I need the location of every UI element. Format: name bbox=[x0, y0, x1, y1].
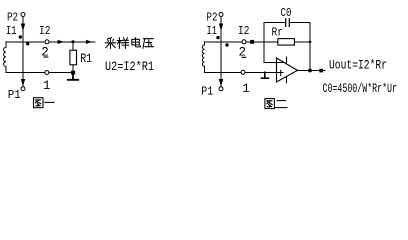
svg-text:I2: I2 bbox=[39, 24, 50, 38]
resistor R1 (fig1) bbox=[70, 50, 77, 65]
ground (fig2) bbox=[262, 72, 269, 78]
capacitor C0 left wire bbox=[264, 22, 285, 24]
svg-text:P1: P1 bbox=[8, 88, 21, 102]
svg-text:Uout=I2*Rr: Uout=I2*Rr bbox=[329, 57, 387, 72]
current arrow to P1 (fig2) bbox=[219, 79, 223, 87]
op-amp U1 bbox=[277, 58, 298, 82]
svg-text:R1: R1 bbox=[80, 52, 92, 66]
current arrow I2 left (fig1) bbox=[58, 40, 64, 44]
wire R1 bottom (fig1) bbox=[72, 65, 74, 73]
terminal P2 circle (fig2) bbox=[219, 13, 223, 17]
terminal 1 circle (fig1) bbox=[45, 71, 49, 75]
terminal P1 circle (fig1) bbox=[21, 87, 25, 91]
ground (fig1) bbox=[68, 74, 78, 79]
wire inverting input (left edge down + stub) bbox=[264, 23, 283, 63]
junction dot Rr right bbox=[309, 41, 312, 44]
svg-text:Rr: Rr bbox=[272, 27, 284, 40]
capacitor C0 plates bbox=[285, 19, 287, 26]
svg-text:1: 1 bbox=[43, 79, 51, 93]
wire op-amp output bbox=[298, 70, 326, 72]
current arrow I1 down (fig1) bbox=[21, 24, 25, 32]
wire non-inverting input (fig2) bbox=[245, 71, 283, 73]
wire secondary top (fig1) bbox=[6, 41, 95, 43]
junction dot R1 bottom (fig1) bbox=[71, 71, 75, 75]
caption 图二 (fig2) bbox=[265, 99, 287, 109]
terminal P2 circle (fig1) bbox=[21, 13, 25, 17]
svg-text:I2: I2 bbox=[238, 24, 249, 38]
current arrow I1 down (fig2) bbox=[219, 24, 223, 32]
polarity dot secondary (fig1) bbox=[26, 42, 29, 45]
current arrow to P1 (fig1) bbox=[21, 79, 25, 87]
terminal P1 circle (fig2) bbox=[219, 87, 223, 91]
terminal 2 circle (fig1) bbox=[45, 40, 49, 44]
feedback right edge wire bbox=[309, 23, 311, 71]
output marker square bbox=[319, 69, 323, 73]
current marker square (fig2) bbox=[250, 40, 254, 44]
junction dot R1 top (fig1) bbox=[71, 40, 74, 43]
text 采样电压 bbox=[105, 38, 153, 49]
svg-text:1: 1 bbox=[242, 82, 250, 96]
svg-text:I1: I1 bbox=[6, 24, 17, 38]
svg-text:I1: I1 bbox=[207, 24, 218, 38]
svg-text:U2=I2*R1: U2=I2*R1 bbox=[105, 59, 154, 74]
svg-text:C0: C0 bbox=[281, 6, 292, 20]
wire secondary top to summing node (fig2) bbox=[205, 41, 311, 43]
svg-text:P1: P1 bbox=[201, 85, 213, 99]
wire secondary bottom (fig1) bbox=[6, 72, 74, 74]
op-amp power stub bottom bbox=[286, 77, 288, 83]
polarity dot primary (fig2) bbox=[216, 36, 219, 39]
caption 图一 (fig1) bbox=[34, 98, 55, 108]
wire R1 top (fig1) bbox=[72, 42, 74, 51]
polarity dot primary (fig1) bbox=[19, 35, 22, 38]
svg-text:P2: P2 bbox=[7, 11, 18, 25]
primary wire I1 (fig1) bbox=[22, 17, 24, 87]
primary wire I1 (fig2) bbox=[220, 17, 222, 87]
svg-text:C0=4500/W*Rr*Ur: C0=4500/W*Rr*Ur bbox=[323, 81, 398, 96]
resistor Rr bbox=[278, 39, 295, 46]
terminal 2 circle (fig2) bbox=[242, 40, 246, 44]
svg-text:P2: P2 bbox=[207, 10, 218, 24]
plus sign non-inverting input bbox=[280, 70, 282, 76]
transformer secondary winding (fig1) bbox=[4, 42, 6, 73]
op-amp power stub top bbox=[286, 57, 288, 64]
wire transformer bottom (fig2) bbox=[205, 71, 241, 73]
transformer secondary winding (fig2) bbox=[202, 42, 204, 73]
capacitor C0 right wire bbox=[290, 22, 310, 24]
terminal 1 circle (fig2) bbox=[241, 70, 245, 74]
junction dot output feedback bbox=[308, 69, 312, 73]
polarity dot secondary (fig2) bbox=[225, 43, 228, 46]
current arrow I2 right (fig1) bbox=[86, 40, 92, 44]
